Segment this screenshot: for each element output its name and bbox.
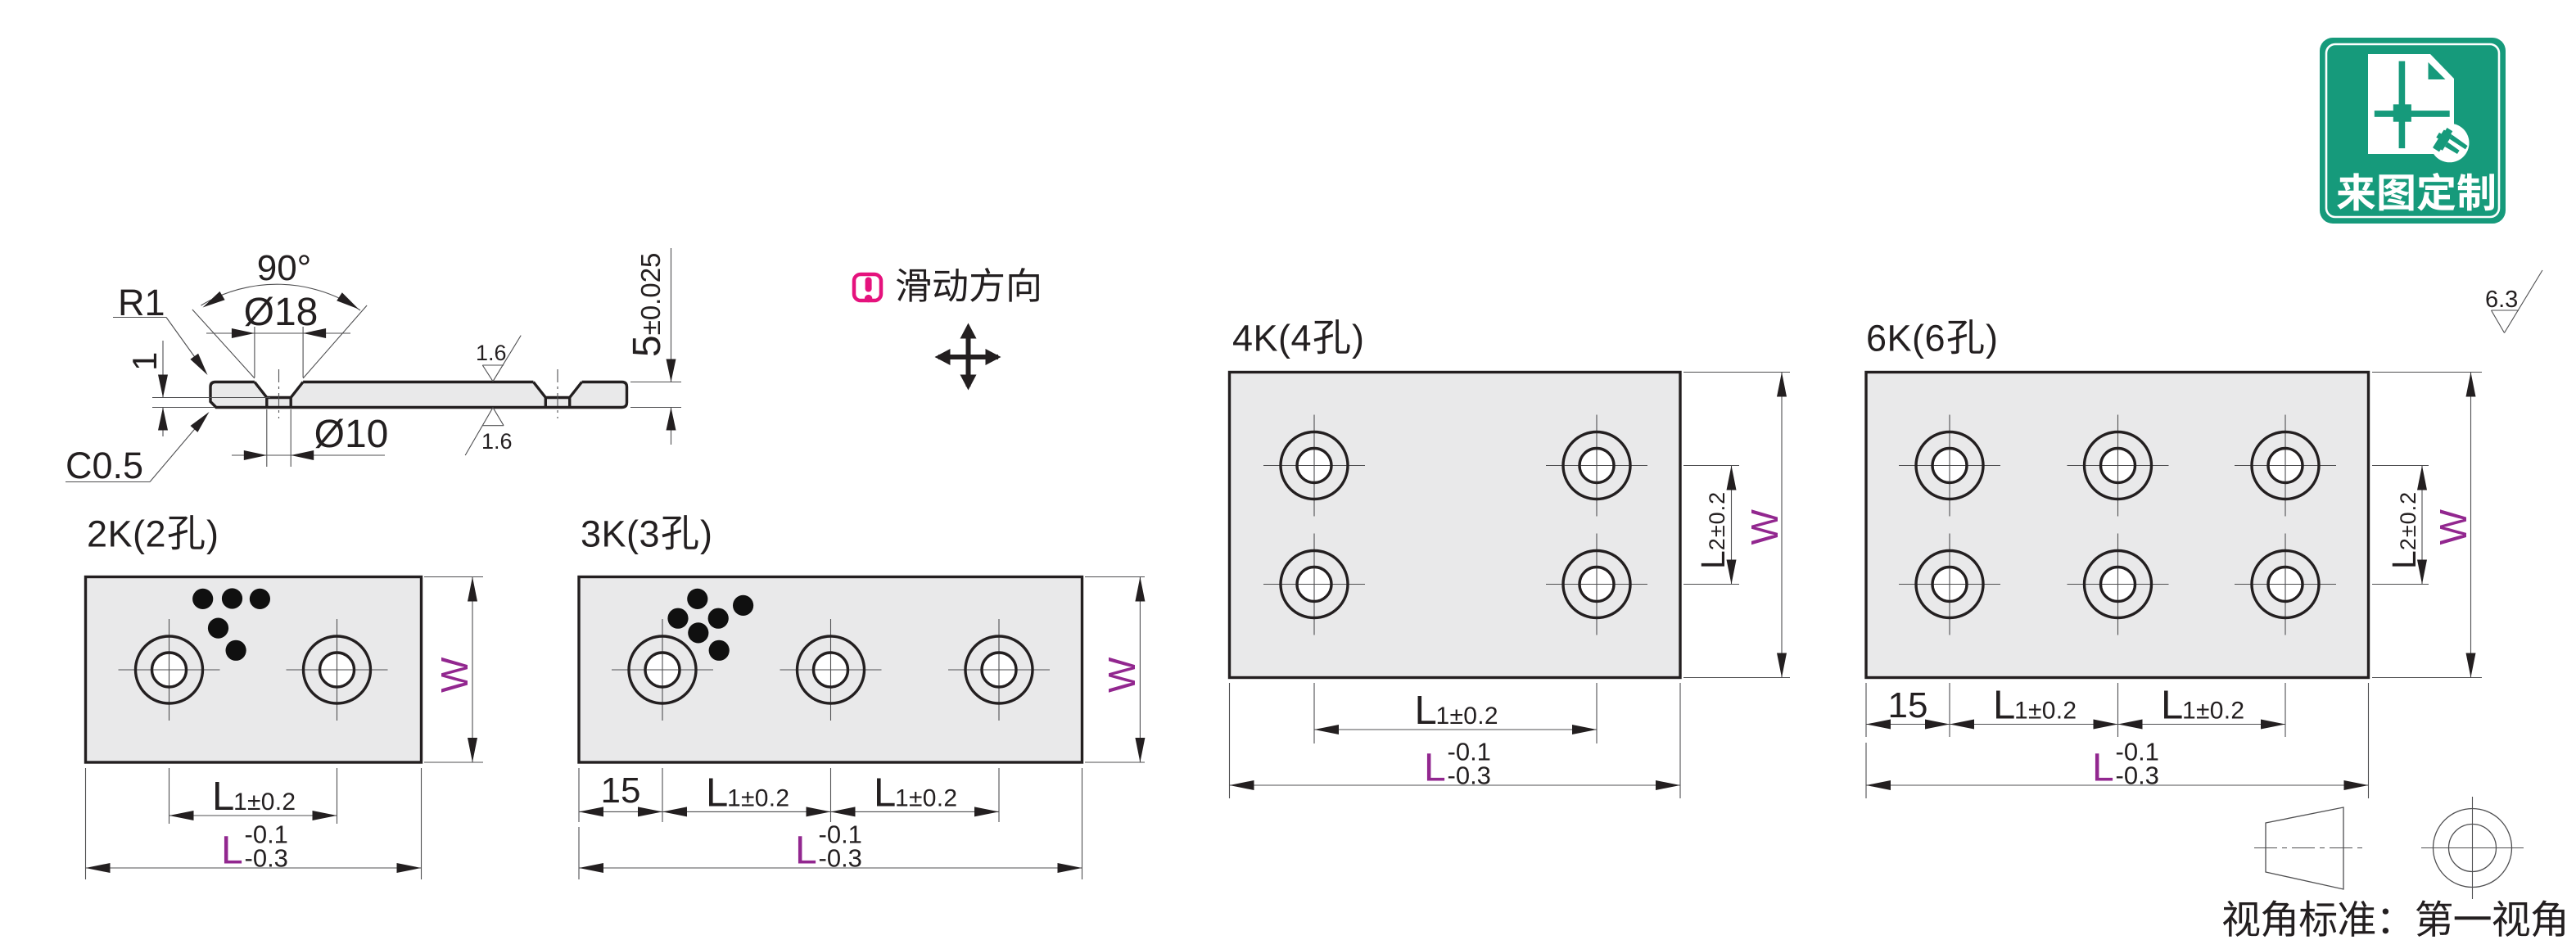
badge crosshair xyxy=(2399,61,2406,148)
svg-text:-0.3: -0.3 xyxy=(1448,761,1491,790)
counterbored hole 3K-2 xyxy=(814,653,848,687)
projection symbol cone view xyxy=(2266,807,2343,889)
badge paper sheet xyxy=(2368,54,2454,154)
ball cluster 2K xyxy=(192,589,213,609)
svg-text:L: L xyxy=(2092,747,2114,790)
svg-text:-0.3: -0.3 xyxy=(2116,761,2159,790)
plate 6K xyxy=(1866,373,2369,678)
dim 15 3K xyxy=(578,768,580,822)
caution icon xyxy=(854,274,881,301)
svg-text:L: L xyxy=(795,829,817,873)
svg-text:1±0.2: 1±0.2 xyxy=(2182,698,2244,725)
countersunk hole 1 profile xyxy=(255,382,303,408)
hole 1 centerline xyxy=(278,369,280,418)
svg-text:2K(2: 2K(2 xyxy=(87,513,166,555)
counterbored hole 6K-5 xyxy=(2101,567,2135,602)
svg-text:L: L xyxy=(221,829,243,873)
svg-text:1.6: 1.6 xyxy=(476,341,507,365)
section view plate body xyxy=(210,382,627,408)
dim 90deg cone angle xyxy=(192,310,255,378)
projection symbol circle view xyxy=(2434,809,2512,888)
svg-text:1±0.2: 1±0.2 xyxy=(233,789,296,816)
dim L overall 2K xyxy=(85,768,87,879)
dim 15 6K xyxy=(1865,683,1867,737)
dim 5 plate thickness xyxy=(630,382,681,383)
dim dia10 bore xyxy=(266,409,268,467)
svg-text:-0.3: -0.3 xyxy=(245,844,288,873)
dim L overall 6K xyxy=(1865,743,1867,798)
svg-text:6.3: 6.3 xyxy=(2485,287,2518,313)
counterbored hole 6K-2 xyxy=(2101,449,2135,483)
dim L1 6K first xyxy=(2117,683,2119,737)
plate 3K xyxy=(579,577,1082,763)
svg-text:6K(6: 6K(6 xyxy=(1866,318,1946,359)
dim L2 6K xyxy=(2372,465,2429,467)
badge caliper glyph xyxy=(2430,125,2470,163)
dim L1 3K second xyxy=(998,768,1000,822)
dim L overall 4K xyxy=(1229,683,1231,798)
svg-text:L: L xyxy=(874,771,896,815)
svg-text:L: L xyxy=(1993,684,2015,728)
svg-text:Ø10: Ø10 xyxy=(314,413,389,456)
counterbored hole 2K-2 xyxy=(320,653,355,687)
svg-text:15: 15 xyxy=(601,771,641,811)
svg-text:90°: 90° xyxy=(257,248,312,288)
dim L1 2K xyxy=(169,768,170,824)
counterbored hole 3K-1 xyxy=(645,653,680,687)
svg-text:W: W xyxy=(2432,509,2474,545)
badge custom-drawing service xyxy=(2320,38,2506,224)
counterbored hole 6K-1 xyxy=(1932,449,1967,483)
dim L1 3K first xyxy=(830,768,832,822)
svg-text:W: W xyxy=(1100,657,1143,693)
dim W 3K xyxy=(1085,576,1145,578)
countersink opening 1 xyxy=(255,382,303,398)
dim dia18 countersink xyxy=(254,327,255,377)
svg-text:3K(3: 3K(3 xyxy=(581,513,660,555)
svg-text:L: L xyxy=(706,771,728,815)
svg-text:L: L xyxy=(2161,684,2183,728)
caption first angle projection xyxy=(2223,901,2259,937)
counterbored hole 3K-3 xyxy=(982,653,1016,687)
counterbored hole 4K-2 xyxy=(1579,449,1614,483)
svg-text:1±0.2: 1±0.2 xyxy=(727,784,789,811)
badge caliper circle xyxy=(2430,124,2470,163)
svg-text:C0.5: C0.5 xyxy=(66,445,143,486)
svg-text:15: 15 xyxy=(1888,685,1928,725)
svg-text:1±0.2: 1±0.2 xyxy=(2014,698,2077,725)
dim W 4K xyxy=(1683,372,1790,373)
svg-text:L: L xyxy=(212,775,234,819)
sliding direction cross arrows xyxy=(966,328,971,386)
dim L1 4K xyxy=(1313,683,1315,743)
countersink opening 2 xyxy=(533,382,581,398)
badge caption xyxy=(2337,173,2375,210)
section plate outline xyxy=(210,382,627,408)
hole 2 centerline xyxy=(557,369,558,418)
counterbored hole 6K-3 xyxy=(2268,449,2303,483)
counterbored hole 4K-3 xyxy=(1297,567,1331,602)
svg-text:): ) xyxy=(1986,318,1998,359)
svg-text:1±0.2: 1±0.2 xyxy=(1436,703,1498,730)
svg-text:W: W xyxy=(433,657,476,693)
plate 4K xyxy=(1230,373,1681,678)
plate 2K xyxy=(86,577,422,763)
svg-text:L: L xyxy=(1415,689,1437,733)
svg-text:): ) xyxy=(700,513,712,555)
counterbored hole 2K-1 xyxy=(152,653,187,687)
svg-text:): ) xyxy=(1352,318,1364,359)
svg-text:L: L xyxy=(1424,747,1446,790)
label sliding direction xyxy=(897,269,930,302)
svg-text:-0.3: -0.3 xyxy=(819,844,862,873)
dim W 6K xyxy=(2372,372,2482,373)
dim L2 4K xyxy=(1683,465,1739,467)
counterbored hole 6K-6 xyxy=(2268,567,2303,602)
svg-text:1±0.2: 1±0.2 xyxy=(895,784,957,811)
dim L1 6K second xyxy=(2285,683,2286,737)
countersunk hole 2 profile xyxy=(533,382,581,408)
counterbored hole 6K-4 xyxy=(1932,567,1967,602)
svg-text:Ø18: Ø18 xyxy=(244,291,319,334)
dim 1 bore depth xyxy=(152,397,270,399)
svg-text:1: 1 xyxy=(125,352,164,371)
counterbored hole 4K-4 xyxy=(1579,567,1614,602)
svg-text:4K(4: 4K(4 xyxy=(1232,318,1312,359)
counterbored hole 4K-1 xyxy=(1297,449,1331,483)
dim W 2K xyxy=(424,576,483,578)
svg-text:1.6: 1.6 xyxy=(481,429,513,454)
ball cluster 3K xyxy=(687,589,707,609)
dim L overall 3K xyxy=(578,827,580,879)
svg-text:): ) xyxy=(206,513,219,555)
svg-text:W: W xyxy=(1743,509,1786,545)
badge paper fold xyxy=(2429,62,2446,79)
